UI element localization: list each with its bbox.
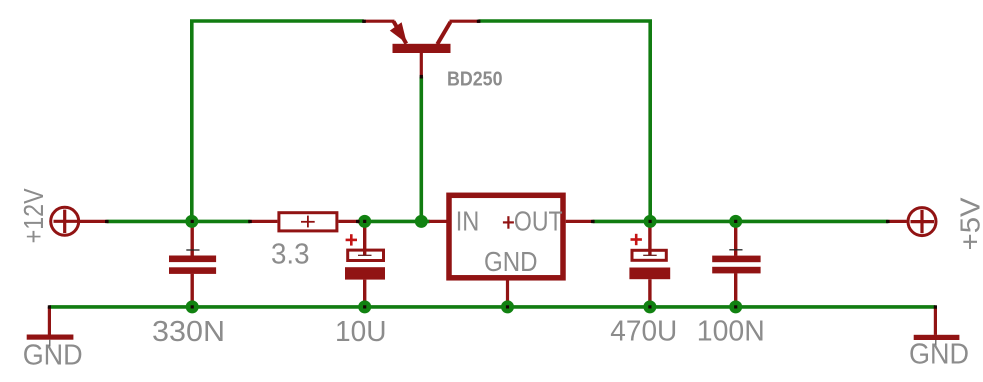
label BD250: [447, 68, 503, 91]
capacitor C2 10U: [345, 221, 385, 307]
label GND left: [23, 340, 83, 372]
wire main rail left: [107, 220, 251, 224]
label 100N: [697, 316, 765, 348]
svg-text:3.3: 3.3: [271, 238, 310, 270]
wire base vertical: [419, 77, 423, 222]
svg-text:100N: 100N: [697, 316, 765, 348]
ground left: [27, 307, 74, 347]
junction dots on bottom rail: [186, 300, 743, 313]
supply +5V: [888, 208, 936, 236]
label 3.3: [271, 238, 310, 270]
resistor R1: [250, 213, 359, 231]
svg-text:330N: 330N: [152, 316, 225, 348]
svg-text:BD250: BD250: [447, 68, 503, 91]
junction dots on main rail: [185, 215, 742, 228]
svg-text:+12V: +12V: [18, 188, 49, 243]
regulator U1 7805: [429, 195, 593, 307]
label 470U: [610, 316, 677, 348]
capacitor C3 470U: [629, 221, 670, 307]
wire top-right loop: [478, 21, 650, 221]
label 330N: [152, 316, 225, 348]
capacitor C1 330N: [169, 221, 216, 307]
wire top-left loop (base rail to top): [192, 21, 364, 221]
label +5V: [955, 197, 983, 250]
supply +12V: [51, 207, 107, 235]
svg-text:OUT: OUT: [514, 205, 563, 236]
wire main rail right: [593, 220, 889, 224]
label +12V: [18, 188, 49, 243]
wire bottom rail: [49, 305, 935, 309]
svg-text:GND: GND: [909, 339, 969, 371]
transistor Q1 BD250: [364, 21, 479, 77]
wire main rail middle: [358, 220, 430, 224]
label GND right: [909, 339, 969, 371]
ground right: [914, 307, 960, 347]
svg-text:+5V: +5V: [955, 197, 983, 250]
label 10U: [335, 316, 387, 348]
svg-text:10U: 10U: [335, 316, 387, 348]
pin/net interface dots: [48, 20, 937, 309]
svg-text:IN: IN: [456, 205, 480, 236]
capacitor C4 100N: [712, 221, 760, 307]
svg-text:GND: GND: [484, 246, 538, 277]
svg-text:470U: 470U: [610, 316, 677, 348]
svg-text:GND: GND: [23, 340, 83, 372]
